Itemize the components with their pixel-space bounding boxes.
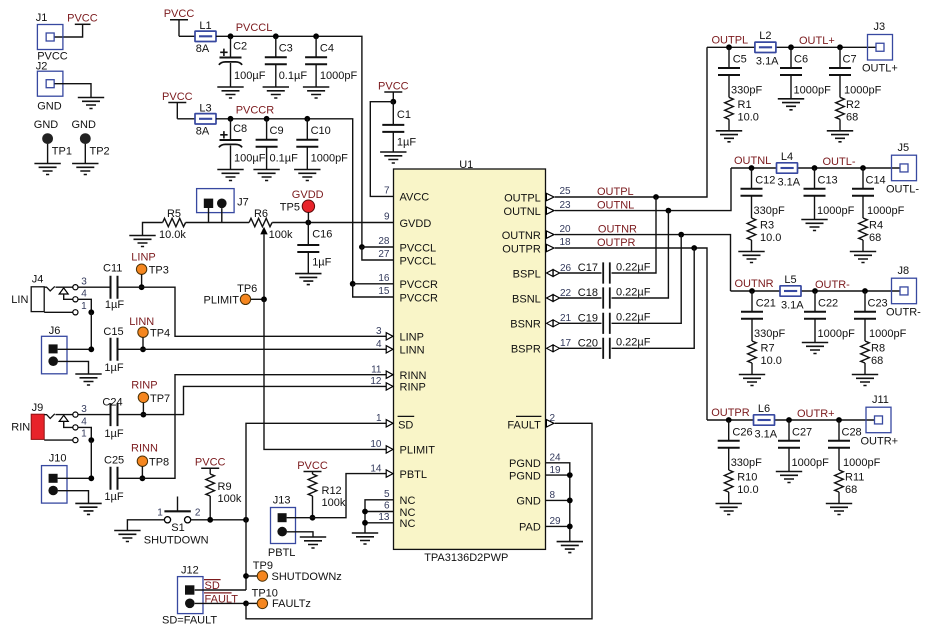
svg-text:RIN: RIN (11, 422, 30, 434)
node RINN-J10 (88, 475, 94, 481)
svg-text:OUTNL: OUTNL (734, 155, 771, 167)
node RINP (141, 412, 147, 418)
ground at PGND bus (557, 542, 583, 553)
svg-text:8: 8 (550, 490, 556, 501)
svg-text:J1: J1 (36, 12, 48, 24)
svg-text:RINP: RINP (400, 382, 426, 394)
pin 10 PLIMIT (370, 439, 435, 457)
resistor R8 (861, 341, 885, 375)
op-amp U1 TPA3136D2PWP (394, 159, 546, 564)
svg-text:PVCCR: PVCCR (236, 105, 275, 117)
wire OUTPL row (707, 46, 876, 48)
svg-text:1µF: 1µF (104, 362, 123, 374)
svg-text:TP2: TP2 (90, 146, 110, 158)
svg-text:0.22µF: 0.22µF (616, 312, 651, 324)
net label OUTNL (734, 155, 771, 167)
svg-text:PVCCL: PVCCL (236, 22, 273, 34)
svg-text:TP9: TP9 (253, 560, 273, 572)
net label OUTR+ (797, 408, 835, 420)
node LINN (140, 346, 146, 352)
node OUTNL-BSNL (666, 208, 672, 214)
pin 21 BSNR (510, 313, 571, 331)
svg-text:18: 18 (560, 237, 572, 248)
svg-text:C23: C23 (868, 297, 888, 309)
svg-text:GND: GND (34, 119, 59, 131)
svg-text:C8: C8 (233, 123, 247, 135)
ground at R10 (716, 504, 742, 515)
node LINP (139, 284, 145, 290)
svg-text:1: 1 (376, 413, 382, 424)
svg-text:5: 5 (384, 489, 390, 500)
svg-text:4: 4 (376, 339, 382, 350)
svg-text:OUTL+: OUTL+ (799, 35, 835, 47)
svg-text:C6: C6 (794, 54, 808, 66)
pin 7 AVCC (384, 186, 429, 204)
svg-text:R6: R6 (254, 208, 268, 220)
svg-text:OUTR+: OUTR+ (797, 408, 835, 420)
svg-text:0.22µF: 0.22µF (616, 286, 651, 298)
resistor R12 (308, 474, 346, 518)
pin 11 RINN (371, 365, 426, 383)
svg-text:C3: C3 (279, 42, 293, 54)
test point TP1 GND (34, 119, 72, 163)
svg-text:R12: R12 (322, 485, 342, 497)
wire J10 shield to ground (58, 491, 89, 504)
capacitor C27 (778, 417, 829, 471)
svg-text:15: 15 (378, 286, 390, 297)
svg-text:R8: R8 (871, 343, 885, 355)
svg-text:LINP: LINP (131, 252, 155, 264)
node J9 pin1 (88, 437, 94, 443)
svg-text:1000pF: 1000pF (844, 84, 882, 96)
wire FAULT net (246, 423, 592, 619)
svg-text:OUTPR: OUTPR (597, 237, 636, 249)
ground at R11 (826, 504, 852, 515)
svg-text:C11: C11 (103, 262, 122, 274)
net label PVCCR (236, 105, 275, 117)
svg-text:C28: C28 (842, 426, 862, 438)
svg-text:OUTL-: OUTL- (886, 183, 919, 195)
svg-text:J11: J11 (872, 394, 889, 406)
svg-text:SD: SD (398, 420, 413, 432)
svg-text:J9: J9 (32, 402, 44, 414)
svg-text:PBTL: PBTL (400, 469, 428, 481)
svg-text:FAULTz: FAULTz (272, 598, 311, 610)
svg-text:1: 1 (157, 507, 163, 518)
svg-text:R9: R9 (218, 481, 232, 493)
node R9-S1 (207, 517, 213, 523)
capacitor C3 (265, 33, 308, 87)
test point TP7 RINP (131, 380, 170, 415)
svg-text:PVCCL: PVCCL (400, 255, 437, 267)
svg-text:J13: J13 (273, 494, 291, 506)
ground at TP2 (72, 164, 98, 175)
capacitor C2 (219, 33, 266, 87)
capacitor C5 (718, 44, 762, 97)
svg-text:GVDD: GVDD (292, 189, 324, 201)
resistor R5 (143, 208, 187, 241)
pin 19 PGND (509, 465, 561, 483)
inductor L6 (754, 403, 778, 441)
power port PVCC (R12) (297, 460, 328, 474)
pin 22 BSNL (512, 288, 572, 306)
wire OUTNR row (731, 290, 900, 292)
svg-text:3.1A: 3.1A (756, 56, 779, 68)
svg-text:C2: C2 (233, 40, 247, 52)
ground at R1 (716, 131, 742, 142)
svg-text:PVCCL: PVCCL (400, 242, 437, 254)
pin 18 OUTPR (502, 237, 571, 255)
svg-text:U1: U1 (459, 159, 473, 171)
svg-text:20: 20 (560, 224, 572, 235)
svg-text:C12: C12 (755, 174, 775, 186)
svg-text:C27: C27 (792, 426, 812, 438)
svg-text:GND: GND (516, 496, 541, 508)
wire PVCCR rail (216, 119, 353, 284)
svg-text:100µF: 100µF (234, 153, 266, 165)
svg-text:13: 13 (378, 512, 390, 523)
svg-text:C16: C16 (312, 229, 332, 241)
ground at J6 (75, 374, 101, 385)
svg-text:OUTR+: OUTR+ (861, 435, 899, 447)
connector J2 (36, 60, 63, 112)
ground at C10 (294, 170, 320, 181)
wire OUTNL (555, 168, 731, 211)
svg-text:6: 6 (384, 501, 390, 512)
svg-text:OUTPR: OUTPR (711, 407, 750, 419)
svg-text:4: 4 (81, 288, 87, 299)
svg-text:J12: J12 (181, 564, 199, 576)
pin 23 OUTNL (504, 200, 572, 218)
node PVCCR pins (350, 281, 356, 287)
capacitor C15 (103, 326, 123, 374)
capacitor C6 (780, 44, 831, 98)
power port PVCC (C1) (378, 80, 409, 101)
test point TP4 LINN (129, 316, 170, 350)
pin 15 PVCCR (378, 286, 438, 304)
pin 24 PGND (509, 453, 561, 471)
wire R6 to GVDD node (272, 222, 393, 224)
ground at R7 (739, 375, 765, 386)
ground at R4 (850, 252, 876, 263)
svg-text:1µF: 1µF (104, 491, 123, 503)
svg-text:PVCCR: PVCCR (400, 292, 439, 304)
capacitor C25 (104, 454, 124, 503)
svg-text:8A: 8A (196, 125, 210, 137)
svg-text:10.0k: 10.0k (159, 229, 186, 241)
net label OUTPL (712, 34, 749, 46)
svg-text:10.0: 10.0 (737, 484, 758, 496)
node PVCCL pins (359, 244, 365, 250)
svg-text:J6: J6 (49, 325, 61, 337)
svg-text:OUTNL: OUTNL (597, 200, 634, 212)
svg-text:C20: C20 (578, 338, 598, 350)
svg-text:1µF: 1µF (397, 137, 416, 149)
capacitor C12 (741, 165, 785, 218)
svg-text:23: 23 (560, 200, 572, 211)
svg-text:0.22µF: 0.22µF (616, 337, 651, 349)
resistor R3 (747, 218, 781, 252)
connector J10 (42, 453, 68, 504)
capacitor C26 (718, 417, 762, 470)
wire LINN to pin 4 (119, 348, 387, 350)
svg-text:68: 68 (869, 232, 881, 244)
svg-text:25: 25 (560, 186, 572, 197)
svg-text:68: 68 (845, 484, 857, 496)
node S1-SD (243, 517, 249, 523)
wire OUTPL (555, 47, 707, 197)
svg-text:OUTR-: OUTR- (886, 306, 921, 318)
connector J7 (197, 189, 249, 223)
svg-text:C9: C9 (270, 125, 284, 137)
svg-text:C14: C14 (866, 174, 886, 186)
svg-text:0.1µF: 0.1µF (279, 70, 308, 82)
pin 17 BSPR (511, 338, 572, 356)
svg-text:C7: C7 (843, 54, 857, 66)
svg-text:NC: NC (400, 518, 416, 530)
svg-text:R4: R4 (869, 220, 883, 232)
connector J8 (886, 265, 921, 319)
node PLIMIT (261, 296, 267, 302)
svg-text:1µF: 1µF (312, 257, 331, 269)
svg-text:J10: J10 (49, 453, 67, 465)
wire S1 to SD net (191, 519, 246, 521)
svg-text:1000pF: 1000pF (867, 205, 905, 217)
node OUTPL-BSPL (653, 194, 659, 200)
wire RINN to pin 11 (119, 375, 387, 479)
resistor R2 (836, 97, 860, 131)
node RINN (140, 475, 146, 481)
node R12-PBTL (310, 515, 316, 521)
test point TP9 SHUTDOWNz (246, 560, 342, 583)
svg-text:330pF: 330pF (754, 328, 785, 340)
svg-text:TP1: TP1 (52, 146, 72, 158)
svg-text:1000pF: 1000pF (818, 328, 856, 340)
svg-text:17: 17 (560, 338, 572, 349)
svg-text:TP3: TP3 (149, 264, 169, 276)
pin 28 PVCCL (378, 236, 436, 254)
wire PGND bus (546, 463, 570, 542)
svg-text:RINN: RINN (131, 443, 158, 455)
wire OUTNR (555, 235, 731, 291)
svg-text:1µF: 1µF (104, 428, 123, 440)
svg-text:R5: R5 (167, 208, 181, 220)
ground at C9 (253, 170, 279, 181)
wire PLIMIT to pin 10 (264, 299, 387, 449)
svg-text:R10: R10 (737, 472, 757, 484)
capacitor C4 (305, 33, 357, 87)
wire J9 pin1 junction down (90, 440, 92, 478)
svg-text:C17: C17 (578, 262, 598, 274)
svg-text:330pF: 330pF (754, 205, 785, 217)
capacitor C22 (804, 288, 855, 342)
svg-text:10.0: 10.0 (760, 232, 781, 244)
inductor L1 (195, 20, 216, 55)
inductor L5 (780, 274, 804, 312)
switch S1 SHUTDOWN (144, 497, 209, 547)
ground at J10 (75, 503, 101, 514)
svg-text:26: 26 (560, 263, 572, 274)
resistor R11 (835, 470, 865, 504)
node TP10 (243, 601, 249, 607)
svg-text:100k: 100k (218, 493, 242, 505)
wire PVCC to J1 (55, 24, 83, 37)
svg-text:3.1A: 3.1A (781, 299, 804, 311)
svg-text:BSNR: BSNR (510, 319, 541, 331)
pin 12 RINP (370, 376, 425, 394)
node PAD 29 (567, 524, 573, 530)
svg-text:10.0: 10.0 (761, 355, 782, 367)
ground at J13 (300, 537, 326, 548)
svg-text:1: 1 (81, 429, 87, 440)
test point TP6 PLIMIT (204, 283, 265, 306)
wire PVCCR pins (353, 284, 394, 297)
svg-text:BSPL: BSPL (513, 268, 541, 280)
svg-text:GND: GND (72, 119, 97, 131)
capacitor C21 (741, 288, 785, 341)
node GVDD (305, 220, 311, 226)
svg-text:L4: L4 (781, 151, 793, 163)
svg-text:SHUTDOWN: SHUTDOWN (144, 534, 209, 546)
wire PBTL net (287, 474, 387, 518)
svg-text:RINP: RINP (131, 380, 157, 392)
svg-text:3.1A: 3.1A (755, 428, 778, 440)
svg-text:PLIMIT: PLIMIT (204, 295, 240, 307)
wire J4 pin4 down (78, 299, 91, 312)
svg-text:LINP: LINP (400, 332, 424, 344)
pin 16 PVCCR (378, 273, 438, 291)
svg-text:C19: C19 (578, 313, 598, 325)
power port PVCC (J1) (67, 12, 98, 24)
svg-text:OUTPL: OUTPL (712, 34, 749, 46)
svg-text:27: 27 (378, 249, 390, 260)
svg-text:24: 24 (550, 453, 562, 464)
svg-text:1000pF: 1000pF (794, 84, 832, 96)
pin 6 NC (384, 501, 416, 519)
node J4 pin1 (88, 309, 94, 315)
svg-text:1000pF: 1000pF (817, 205, 855, 217)
svg-text:J7: J7 (237, 196, 249, 208)
wire J10 to RINN node (58, 477, 92, 479)
net label OUTPL (597, 186, 634, 198)
ground at TP1 (34, 164, 60, 175)
svg-text:4: 4 (81, 417, 87, 428)
svg-text:PLIMIT: PLIMIT (400, 445, 436, 457)
pin 14 PBTL (370, 463, 427, 481)
ground at R3 (738, 252, 764, 263)
svg-text:PVCC: PVCC (67, 12, 98, 24)
svg-text:OUTNR: OUTNR (735, 278, 774, 290)
net label OUTNR (598, 224, 637, 236)
svg-text:C1: C1 (397, 109, 411, 121)
net label PVCCL (236, 22, 273, 34)
pin 1 SD (376, 413, 414, 432)
svg-text:BSNL: BSNL (512, 293, 541, 305)
svg-text:0.1µF: 0.1µF (270, 153, 299, 165)
svg-text:J4: J4 (32, 273, 44, 285)
svg-text:L5: L5 (784, 274, 796, 286)
svg-text:1µF: 1µF (105, 299, 124, 311)
svg-text:NC: NC (400, 495, 416, 507)
node OUTNR-BSNR (678, 232, 684, 238)
capacitor C16 (297, 223, 332, 274)
test point TP2 GND (72, 119, 110, 163)
svg-text:10: 10 (370, 439, 382, 450)
wire PVCC to L3 (177, 118, 195, 120)
svg-text:OUTL-: OUTL- (823, 156, 856, 168)
svg-text:OUTPL: OUTPL (597, 186, 634, 198)
power port PVCC (L3) (162, 91, 193, 119)
connector J12 (162, 564, 217, 626)
wire R5 to R6 (186, 222, 250, 224)
svg-text:GVDD: GVDD (400, 218, 432, 230)
connector J9 audio jack (11, 402, 87, 443)
capacitor C7 (829, 44, 882, 97)
pin 2 FAULT (507, 413, 555, 432)
ground at R8 (852, 375, 878, 386)
svg-text:PAD: PAD (519, 522, 541, 534)
resistor R7 (748, 341, 782, 375)
svg-text:3: 3 (376, 326, 382, 337)
svg-text:19: 19 (550, 465, 562, 476)
net label FAULT (204, 593, 238, 606)
pin 29 PAD (519, 516, 561, 534)
capacitor C28 (828, 417, 881, 470)
wire J2 to ground (55, 84, 92, 98)
svg-text:0.22µF: 0.22µF (616, 261, 651, 273)
svg-text:C22: C22 (818, 297, 838, 309)
ground at C2 (217, 87, 243, 98)
wire J12 SD pin (195, 589, 246, 591)
net label OUTL- (823, 156, 856, 168)
svg-text:9: 9 (384, 212, 390, 223)
wire J12 FAULT pin (195, 602, 246, 604)
svg-text:J3: J3 (874, 21, 886, 33)
svg-text:AVCC: AVCC (400, 192, 430, 204)
resistor R9 (206, 474, 242, 520)
svg-text:PGND: PGND (509, 470, 541, 482)
svg-text:PVCCR: PVCCR (400, 279, 439, 291)
svg-text:R7: R7 (761, 343, 775, 355)
ground at R2 (827, 131, 853, 142)
svg-text:TP4: TP4 (150, 328, 170, 340)
wire J4 pin3 to C11 (78, 286, 110, 288)
wire J4 pin1 junction down (90, 312, 92, 349)
svg-text:29: 29 (550, 516, 562, 527)
svg-text:PVCC: PVCC (378, 80, 409, 92)
capacitor C13 (804, 165, 855, 219)
net label OUTNR (735, 278, 774, 290)
node PVCC-C1 (390, 99, 396, 105)
svg-text:1000pF: 1000pF (792, 457, 830, 469)
ground at C16 (295, 274, 321, 285)
potentiometer R6 (249, 208, 293, 299)
wire PVCCL rail (216, 36, 362, 247)
ground at C6 (778, 99, 804, 110)
net label OUTNL (597, 200, 634, 212)
svg-text:14: 14 (370, 463, 382, 474)
svg-text:1000pF: 1000pF (320, 70, 358, 82)
capacitor C11 (103, 262, 124, 310)
svg-text:OUTPL: OUTPL (504, 192, 541, 204)
svg-text:7: 7 (384, 186, 390, 197)
svg-text:OUTR-: OUTR- (815, 279, 850, 291)
capacitor C8 (219, 116, 266, 170)
svg-text:OUTL+: OUTL+ (862, 63, 898, 75)
pin 25 OUTPL (504, 186, 571, 204)
svg-text:C10: C10 (311, 125, 331, 137)
svg-text:J5: J5 (898, 142, 910, 154)
